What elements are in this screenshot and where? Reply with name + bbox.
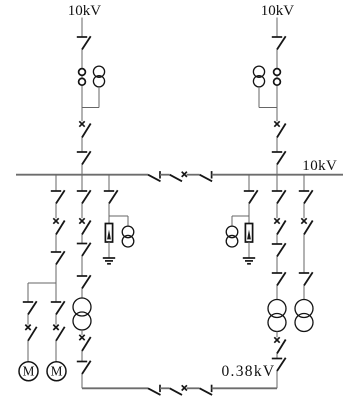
bus-tie disconnector QS5 [148,171,161,181]
transformer T1 [73,298,91,330]
bus-tie circuit breaker QF3 [170,172,187,182]
bus-tie disconnector QS6 [200,171,213,181]
wire right PT jog [259,107,277,109]
wire feeder A QS8 to tee [55,265,57,284]
disconnector feeder B QS11 [77,190,91,203]
disconnector feeder B QS13 [77,275,91,288]
voltage transformer right incomer [253,66,264,87]
wire feeder B QF7 to QS12 [81,235,83,244]
wire feeder C PT drop [127,216,129,226]
bottom-tie circuit breaker QF12 [170,385,187,395]
svg-text:10kV: 10kV [261,3,295,19]
wire T1 to QF8 [81,330,83,335]
svg-text:M: M [51,364,63,379]
svg-text:0.38kV: 0.38kV [222,363,276,380]
wire feeder F QF11 to QS22 [303,235,305,274]
disconnector motor branch 2 QS10 [51,301,65,314]
circuit breaker feeder E QF9 [274,218,285,234]
wire feeder F QS21 to QF11 [303,204,305,219]
wire feeder E QS18 to QS19 [276,257,278,274]
wire feeder E QS17 to QF9 [276,204,278,219]
transformer T3 [295,300,313,332]
bus-tie wire a [160,174,170,176]
circuit breaker T2 secondary QF10 [274,337,285,353]
surge arrester F1 [105,224,112,243]
disconnector feeder C QS15 [104,190,118,203]
wire feeder B QS12 to QS13 [81,256,83,276]
wire feeder A QF4 to QS8 [55,235,57,253]
circuit breaker feeder A QF4 [53,218,64,234]
bottom-tie disconnector QS23 [148,385,161,395]
disconnector T1 secondary QS14 [77,361,91,374]
circuit breaker motor branch 2 QF6 [53,325,64,341]
wire right incomer QS3 to CT [276,50,278,69]
disconnector feeder A QS8 [51,251,65,264]
current transformer right incomer (2 cores) [274,69,281,86]
disconnector left incomer QS2 [77,151,91,164]
bottom-tie wire a [160,387,170,389]
wire left PT drop [98,87,100,108]
wire left incomer through CT [81,69,83,122]
bus 10kV left section [16,174,148,176]
wire feeder B QS11 to QF7 [81,204,83,219]
wire feeder C stub [108,175,110,191]
disconnector feeder E QS18 [272,243,286,256]
wire motor branch 2 to motor [55,341,57,362]
wire feeder C QS15 to branch [108,204,110,217]
circuit breaker left incomer QF1 [79,121,90,137]
wire feeder D stub [248,175,250,191]
disconnector feeder F QS21 [299,190,313,203]
ground feeder D [243,258,255,264]
disconnector T2 secondary QS20 [272,358,286,371]
wire feeder A stub [55,175,57,191]
wire right incomer drop [276,18,278,38]
wire left incomer drop [81,18,83,38]
wire feeder F QS22 to T3 [303,286,305,300]
motor M1 [19,362,38,381]
bus-tie wire b [187,174,200,176]
wire right incomer through CT [276,69,278,122]
disconnector feeder F QS22 [299,272,313,285]
wire right incomer QS4 to bus [276,165,278,175]
wire motor branch 1 drop [27,283,29,302]
circuit breaker T1 secondary QF8 [79,335,90,351]
disconnector feeder B QS12 [77,243,91,256]
wire feeder A QS7 to QF4 [55,204,57,219]
disconnector feeder A QS7 [51,190,65,203]
bottom-tie disconnector QS24 [200,385,213,395]
voltage transformer left incomer [93,66,104,87]
wire feeder B QS13 to T1 [81,289,83,299]
bus 0.38kV left section [82,387,148,389]
transformer T2 [268,300,286,332]
current transformer left incomer (2 cores) [79,69,86,86]
wire left incomer QF1 to QS2 [81,138,83,153]
motor M2 [47,362,66,381]
wire arrester F1 to ground [108,242,110,258]
voltage transformer feeder C [122,226,134,247]
wire right PT drop [258,87,260,108]
wire arrester F2 to ground [248,242,250,258]
wire motor branch 1 QS9 to QF5 [27,315,29,325]
wire feeder E QS19 to T2 [276,286,278,300]
svg-text:10kV: 10kV [68,3,102,19]
wire feeder D branch horizontal [232,215,249,217]
wire feeder E QF9 to QS18 [276,235,278,245]
circuit breaker right incomer QF2 [274,121,285,137]
ground feeder C [103,258,115,264]
circuit breaker feeder F QF11 [301,218,312,234]
bus 10kV right section [212,174,343,176]
wire T2 to QF10 [276,332,278,338]
wire left incomer QS1 to CT [81,50,83,69]
wire motor branch 2 drop [55,283,57,302]
wire feeder C to arrester [108,216,110,224]
svg-text:10kV: 10kV [302,158,337,174]
disconnector right incomer QS3 [272,36,286,49]
wire left PT jog [82,107,99,109]
wire motor branch 1 to motor [27,341,29,362]
wire left incomer QS2 to bus [81,165,83,175]
wire QS20 down [276,371,278,388]
disconnector feeder D QS16 [244,190,258,203]
wire feeder F stub [303,175,305,191]
bus 0.38kV right section [212,387,277,389]
wire QS14 down [81,374,83,388]
svg-text:M: M [23,364,35,379]
wire feeder D to arrester [248,216,250,224]
wire QF8 to QS14 [81,351,83,362]
wire right incomer QF2 to QS4 [276,138,278,153]
disconnector motor branch 1 QS9 [23,301,37,314]
wire feeder D QS16 to branch [248,204,250,217]
disconnector left incomer QS1 [77,36,91,49]
wire feeder E stub [276,175,278,191]
bottom-tie wire b [187,387,200,389]
disconnector feeder E QS19 [272,272,286,285]
wire feeder B stub [81,175,83,191]
surge arrester F2 [245,224,252,243]
wire motor branch 2 QS10 to QF6 [55,315,57,325]
wire QF10 to QS20 [276,354,278,359]
disconnector feeder E QS17 [272,190,286,203]
circuit breaker feeder B QF7 [79,218,90,234]
wire feeder C branch horizontal [109,215,128,217]
disconnector right incomer QS4 [272,151,286,164]
wire motor tee horizontal [28,282,56,284]
circuit breaker motor branch 1 QF5 [25,325,36,341]
voltage transformer feeder D [226,226,238,247]
wire feeder D PT drop [231,216,233,226]
